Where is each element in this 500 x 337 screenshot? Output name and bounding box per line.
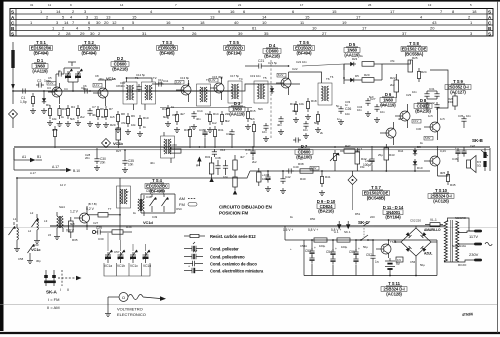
wire t2 to ts3 (155, 83, 157, 85)
svg-text:(BF495): (BF495) (160, 51, 176, 56)
svg-text:R27: R27 (116, 149, 122, 153)
svg-text:ELECTRONICO: ELECTRONICO (117, 312, 146, 317)
transistor TS5 (210, 78, 224, 100)
svg-text:C12: C12 (136, 73, 142, 77)
svg-text:SK.1: SK.1 (344, 230, 351, 234)
svg-text:560: 560 (314, 121, 319, 125)
svg-text:4k7: 4k7 (180, 112, 185, 116)
svg-text:12: 12 (112, 20, 117, 25)
capacitor C41 (265, 171, 271, 192)
svg-text:+: + (188, 265, 190, 269)
svg-text:C29: C29 (406, 93, 412, 97)
svg-text:+: + (358, 247, 360, 251)
terminal 230V (474, 259, 482, 262)
svg-text:R23: R23 (352, 57, 358, 61)
IF transformer T10 tall (161, 132, 175, 163)
resistor R48 boxed (314, 238, 327, 242)
svg-text:1k: 1k (171, 105, 175, 109)
svg-text:220: 220 (370, 215, 375, 219)
svg-text:C7: C7 (92, 105, 96, 109)
svg-text:(AA119): (AA119) (32, 68, 48, 73)
svg-text:10k: 10k (131, 123, 136, 127)
resistor R12 (165, 105, 171, 127)
svg-text:18: 18 (200, 20, 205, 25)
svg-text:17: 17 (362, 26, 367, 31)
svg-text:D 2: D 2 (117, 56, 124, 61)
svg-text:(BA218): (BA218) (112, 66, 128, 71)
svg-text:A.17: A.17 (52, 165, 59, 169)
svg-text:100µ: 100µ (319, 244, 326, 248)
svg-text:S: S (488, 9, 491, 14)
svg-text:13: 13 (428, 3, 432, 7)
transistor TS10 output (424, 148, 440, 176)
svg-text:61: 61 (252, 26, 257, 31)
svg-text:2k2: 2k2 (252, 160, 257, 164)
svg-text:8,2V: 8,2V (278, 73, 284, 77)
capacitor C6 (82, 88, 90, 93)
junction arrow A4 (196, 157, 202, 168)
svg-text:R4: R4 (71, 105, 75, 109)
svg-text:A.17: A.17 (30, 171, 36, 175)
svg-text:21: 21 (238, 3, 242, 7)
svg-text:C35: C35 (458, 114, 464, 118)
wire af coupling (352, 171, 354, 176)
svg-text:(BC548B): (BC548B) (367, 195, 386, 200)
diode in agc (348, 62, 356, 66)
connector arrow SK2 (344, 221, 351, 234)
svg-text:19: 19 (342, 20, 347, 25)
svg-text:(BA216): (BA216) (415, 108, 431, 113)
primary top wire NEGRO (448, 218, 475, 231)
svg-text:T6: T6 (330, 75, 334, 79)
trimmer VC1c (130, 244, 138, 263)
svg-text:AMARILLO: AMARILLO (424, 228, 441, 232)
svg-text:Resist. carbón serie E12: Resist. carbón serie E12 (210, 234, 256, 239)
svg-text:R44: R44 (398, 149, 404, 153)
speaker LS (467, 156, 482, 173)
svg-text:C52: C52 (410, 219, 416, 223)
svg-text:10n: 10n (345, 112, 350, 116)
svg-text:I = FM: I = FM (48, 297, 59, 302)
dashed gang link (270, 60, 272, 138)
resistor R44 boxed vertical (257, 168, 261, 186)
svg-text:10n: 10n (262, 130, 267, 134)
svg-text:C54: C54 (326, 250, 332, 254)
transistor TS9 label (445, 79, 471, 94)
svg-text:C2: C2 (37, 79, 41, 83)
resistor R24 (417, 68, 420, 82)
svg-text:VC1b: VC1b (117, 264, 125, 268)
capacitor C27 (365, 98, 371, 117)
svg-text:R43: R43 (389, 153, 395, 157)
svg-text:220: 220 (416, 219, 421, 223)
svg-text:5,8V: 5,8V (425, 136, 431, 140)
svg-text:AM: AM (179, 196, 185, 201)
mains sine symbol (485, 242, 492, 245)
svg-text:VC1a: VC1a (106, 76, 116, 81)
svg-text:(BF194): (BF194) (227, 51, 243, 56)
oscillator coil pair left (32, 214, 41, 244)
variable capacitor osc 2 (162, 194, 169, 212)
svg-text:5p: 5p (236, 74, 240, 78)
resistor R34 boxed horizontal (110, 230, 132, 234)
diode D3 connection (220, 111, 223, 125)
svg-text:1n: 1n (337, 117, 341, 121)
svg-text:C17: C17 (230, 74, 236, 78)
svg-text:R20: R20 (364, 73, 370, 77)
svg-text:20: 20 (430, 26, 435, 31)
svg-text:22k: 22k (225, 112, 230, 116)
svg-text:C21: C21 (258, 59, 264, 63)
capacitor bank C32 (424, 102, 439, 110)
capacitor bank C31 (424, 91, 439, 99)
svg-text:C4: C4 (64, 87, 68, 91)
capacitor C57 (366, 240, 379, 276)
svg-text:1n: 1n (375, 260, 379, 264)
node test point diamond left (9, 110, 18, 119)
svg-text:R18: R18 (311, 99, 317, 103)
svg-text:AZUL: AZUL (424, 252, 432, 256)
svg-text:SH4: SH4 (59, 205, 65, 209)
resistor R39 boxed vertical (233, 177, 237, 195)
svg-text:40n: 40n (92, 113, 97, 117)
transistor TS6 (276, 72, 291, 95)
IF transformer T2 (142, 82, 156, 110)
svg-text:(BA100): (BA100) (296, 154, 312, 159)
transistor TS8 label (401, 41, 427, 56)
svg-text:47k: 47k (390, 59, 395, 63)
svg-text:C42: C42 (285, 175, 291, 179)
svg-text:R28: R28 (52, 128, 58, 132)
resistor R29 boxed (116, 122, 121, 148)
svg-text:(AC127): (AC127) (450, 89, 466, 94)
svg-text:T S 1: T S 1 (36, 40, 46, 45)
svg-text:14: 14 (64, 20, 69, 25)
svg-text:25µ: 25µ (378, 153, 383, 157)
resistor R49 boxed (337, 238, 350, 242)
svg-text:R14: R14 (213, 112, 219, 116)
resistor R6 (95, 106, 101, 128)
svg-text:T S 6: T S 6 (299, 40, 309, 45)
svg-text:D 8: D 8 (420, 98, 427, 103)
transistor TS4 (74, 206, 90, 230)
trimmer vc1c arrow (27, 244, 35, 264)
svg-text:L3: L3 (44, 219, 48, 223)
svg-text:4,7: 4,7 (358, 147, 363, 151)
svg-text:T5: T5 (263, 76, 267, 80)
svg-text:1n5: 1n5 (440, 117, 445, 121)
transistor TS3 label (157, 40, 178, 56)
svg-text:5p: 5p (336, 104, 340, 108)
svg-text:1,2V: 1,2V (48, 81, 54, 85)
capacitor C37 (229, 129, 234, 148)
capacitor C21 (245, 59, 289, 69)
tiny value annotations band (18, 54, 476, 267)
svg-text:8k2: 8k2 (101, 115, 106, 119)
resistor R42 boxed (355, 148, 360, 171)
svg-text:1,5 V +: 1,5 V + (283, 228, 293, 232)
svg-text:17: 17 (356, 15, 361, 20)
svg-text:1n: 1n (345, 103, 349, 107)
svg-text:26: 26 (192, 31, 197, 36)
svg-text:C56: C56 (410, 260, 416, 264)
svg-text:(BA216): (BA216) (318, 209, 334, 214)
svg-text:T2: T2 (153, 76, 157, 80)
svg-text:40n: 40n (196, 117, 201, 121)
legend polystyrene cap symbol (184, 250, 203, 259)
electrolytic C54 (326, 240, 337, 276)
svg-text:10n: 10n (205, 112, 210, 116)
svg-text:ROJO: ROJO (458, 263, 467, 267)
svg-text:10p: 10p (83, 87, 88, 91)
wire agc link top (382, 60, 410, 64)
capacitor C24 (303, 121, 309, 139)
svg-text:L1: L1 (13, 217, 17, 221)
svg-text:40n: 40n (277, 123, 282, 127)
svg-text:Ω: Ω (122, 295, 125, 300)
svg-text:D 6: D 6 (385, 92, 392, 97)
svg-text:T S 9: T S 9 (453, 79, 463, 84)
svg-text:C57: C57 (114, 250, 120, 254)
tuning gang VC1a section (56, 62, 83, 91)
svg-text:30p: 30p (99, 77, 104, 81)
svg-text:A1: A1 (22, 155, 26, 159)
svg-text:C21: C21 (268, 61, 274, 65)
capacitor C25 (293, 137, 301, 142)
svg-text:A4: A4 (196, 164, 200, 168)
svg-text:10n: 10n (223, 175, 228, 179)
svg-text:1,1V: 1,1V (94, 83, 100, 87)
svg-text:40: 40 (234, 20, 239, 25)
svg-text:27: 27 (322, 31, 327, 36)
svg-text:R29: R29 (110, 123, 116, 127)
svg-text:15: 15 (305, 15, 310, 20)
svg-text:+: + (314, 246, 316, 250)
svg-text:Cond. cerámico de disco: Cond. cerámico de disco (210, 261, 257, 266)
wire bridge to bus (395, 240, 401, 242)
capacitor C40 (286, 168, 294, 173)
svg-text:15: 15 (132, 15, 137, 20)
svg-text:(AC128): (AC128) (386, 291, 402, 296)
svg-text:5µF: 5µF (369, 95, 374, 99)
svg-text:R35: R35 (72, 238, 78, 242)
switch SK-A symbol (44, 270, 81, 292)
transistor TS10 label (428, 188, 454, 203)
wire det link (302, 64, 344, 66)
svg-text:30p: 30p (218, 75, 223, 79)
legend polyester cap symbol (184, 242, 203, 251)
resistor R3 (57, 105, 63, 127)
antenna (11, 42, 15, 104)
transistor TS1 (48, 83, 62, 104)
transistor TS7 (380, 122, 396, 145)
svg-text:5,8 V +: 5,8 V + (331, 228, 341, 232)
svg-text:5p: 5p (274, 61, 278, 65)
svg-text:31: 31 (30, 3, 34, 7)
svg-text:10n: 10n (412, 90, 417, 94)
resistor R17 (293, 101, 299, 123)
svg-text:10: 10 (262, 20, 267, 25)
resistor R2 (47, 105, 53, 126)
svg-text:5k6: 5k6 (258, 107, 263, 111)
IF transformer T6 (318, 83, 332, 105)
transistor TS3 (176, 80, 191, 102)
svg-text:14: 14 (120, 3, 124, 7)
svg-text:R50: R50 (310, 217, 316, 221)
svg-text:117V: 117V (469, 234, 478, 239)
svg-text:R15: R15 (250, 109, 256, 113)
capacitor C26 (338, 106, 351, 125)
svg-text:0,2V: 0,2V (440, 149, 446, 153)
svg-text:40n: 40n (120, 84, 125, 88)
resistor R19 (315, 111, 321, 133)
svg-text:(BF494): (BF494) (297, 51, 313, 56)
resistor R43 boxed (384, 144, 389, 171)
svg-text:10n: 10n (380, 110, 385, 114)
svg-text:50µ: 50µ (420, 263, 425, 267)
resistor R9 (125, 113, 131, 135)
svg-text:1,2 V: 1,2 V (70, 210, 79, 214)
svg-text:S: S (11, 9, 14, 14)
svg-text:C32: C32 (429, 101, 435, 105)
wire antenna to bus (13, 90, 20, 92)
svg-text:R47: R47 (345, 144, 351, 148)
node diamond af (348, 176, 357, 185)
transistor TS4 label (145, 178, 169, 193)
svg-text:C22: C22 (296, 60, 302, 64)
svg-text:10n: 10n (302, 60, 307, 64)
fold line (4, 227, 497, 229)
capacitor C44 electrolytic (363, 148, 375, 171)
svg-text:39: 39 (238, 31, 243, 36)
resistor R5 (75, 105, 81, 126)
svg-text:20n: 20n (100, 161, 106, 165)
svg-text:C11: C11 (163, 79, 169, 83)
transistor TS7 label (363, 185, 390, 200)
bottom border line (0, 332, 500, 334)
svg-text:R10: R10 (143, 116, 149, 120)
svg-text:OSC: OSC (176, 207, 182, 211)
svg-text:+: + (335, 247, 337, 251)
svg-text:C53: C53 (305, 249, 311, 253)
transistor TS9 driver (424, 114, 440, 140)
svg-text:150: 150 (448, 100, 453, 104)
svg-text:10k: 10k (52, 117, 57, 121)
svg-text:13: 13 (106, 15, 111, 20)
svg-text:(BA218): (BA218) (264, 53, 280, 58)
svg-text:10n: 10n (128, 163, 134, 167)
wire mid bus (14, 146, 490, 148)
capacitor right (461, 116, 466, 128)
svg-text:330: 330 (172, 113, 177, 117)
svg-text:10k: 10k (299, 102, 304, 106)
trimmer boxes (104, 263, 150, 276)
svg-text:R30: R30 (184, 128, 190, 132)
svg-text:30p: 30p (36, 259, 41, 263)
svg-text:13: 13 (210, 15, 215, 20)
svg-text:(B.7.B): (B.7.B) (88, 202, 97, 206)
resistor R14 (207, 111, 213, 133)
svg-text:C16: C16 (220, 148, 226, 152)
svg-text:6k8: 6k8 (163, 115, 168, 119)
svg-text:VC1d: VC1d (143, 264, 151, 268)
svg-text:R38: R38 (298, 162, 304, 166)
wire t1-t2 top (127, 78, 153, 82)
svg-text:5k6: 5k6 (70, 117, 75, 121)
capacitor C38 (215, 156, 221, 175)
svg-text:C30: C30 (98, 237, 104, 241)
svg-text:100µF: 100µF (262, 177, 271, 181)
svg-text:R25: R25 (412, 56, 418, 60)
capacitor C35 ground (122, 150, 134, 173)
svg-text:(BY164): (BY164) (385, 215, 401, 220)
diode D10 (413, 159, 417, 171)
top border line (0, 0, 500, 2)
svg-text:17: 17 (300, 3, 304, 7)
svg-text:R41: R41 (325, 175, 331, 179)
svg-text:4k7: 4k7 (292, 109, 297, 113)
transformer T9 small right (138, 195, 144, 216)
wire right rail (489, 148, 491, 171)
svg-text:B1: B1 (37, 155, 41, 159)
svg-text:6k8: 6k8 (70, 222, 75, 226)
svg-text:L4: L4 (28, 229, 32, 233)
capacitor C1 (20, 88, 28, 104)
svg-text:II: II (67, 288, 69, 292)
resistor R31 (213, 126, 216, 148)
bridge rectifier D11-D14 (401, 228, 441, 256)
wire vc1a to ts2 (98, 79, 112, 81)
legend electrolytic cap symbol (184, 265, 203, 274)
svg-text:S: S (488, 31, 491, 36)
transistor TS6 label (294, 40, 315, 56)
capacitor C29 (92, 226, 110, 235)
svg-text:43: 43 (432, 20, 437, 25)
svg-text:II = AM: II = AM (47, 305, 60, 310)
svg-text:B.10: B.10 (73, 169, 80, 173)
detector row: diode D5 (348, 78, 362, 82)
resistor R40 boxed horizontal on af bus (300, 169, 313, 173)
svg-text:T S 5: T S 5 (229, 40, 239, 45)
mini voltage tags (47, 73, 433, 170)
legend ceramic disc cap symbol (184, 261, 203, 266)
svg-text:C46: C46 (452, 157, 458, 161)
svg-text:S: S (11, 31, 14, 36)
svg-text:C57: C57 (366, 253, 372, 257)
svg-text:(BF494): (BF494) (34, 51, 50, 56)
IF transformer T1 (123, 78, 137, 110)
svg-text:17: 17 (390, 9, 395, 14)
mains transformer TR (444, 218, 492, 262)
trimmer VC1a (105, 233, 113, 263)
wire left lower (14, 169, 65, 171)
legend resistor symbol (184, 234, 205, 237)
IF transformer T4 (228, 81, 242, 103)
resistor R7 (103, 106, 109, 128)
svg-text:1N: 1N (397, 258, 401, 262)
svg-text:C36: C36 (199, 128, 205, 132)
wire ground return bus (304, 275, 437, 277)
terminal mid (474, 243, 482, 246)
resistor R1 (30, 93, 36, 114)
capacitor C37b (212, 149, 217, 157)
svg-text:R17: R17 (290, 102, 296, 106)
diode D9 (413, 148, 417, 156)
wire osc caps (141, 193, 175, 195)
resistor R25 boxed (408, 60, 413, 72)
svg-text:5k6: 5k6 (250, 117, 255, 121)
diode D1 (41, 91, 47, 114)
